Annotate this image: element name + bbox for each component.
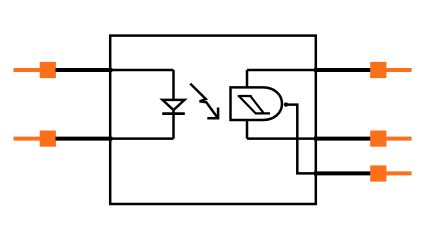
pin 1 (anode) lead	[14, 68, 42, 72]
pin 5 (GND) terminal	[370, 131, 386, 147]
wire gate output	[287, 105, 316, 174]
wire VCC rail top	[247, 69, 316, 72]
gate U1A body	[231, 87, 283, 120]
pin 5 (GND) wire	[314, 137, 371, 141]
pin 4 (VO output) lead	[386, 171, 412, 175]
wire cathode from LED	[110, 137, 173, 140]
pin 2 (cathode) terminal	[40, 131, 56, 147]
pin 4 (VO output) wire	[314, 171, 371, 175]
LED D1 cathode bar	[162, 112, 185, 115]
package outline U1	[110, 36, 316, 204]
pin 5 (GND) lead	[386, 137, 412, 141]
schmitt trigger hysteresis symbol	[238, 96, 270, 113]
wire LED vertical	[172, 70, 175, 139]
wire gate left rail	[246, 70, 249, 139]
wire anode to LED	[110, 69, 173, 72]
pin 2 (cathode) wire	[56, 137, 113, 141]
pin 1 (anode) terminal	[40, 62, 56, 78]
output inversion dot	[284, 102, 288, 106]
pin 2 (cathode) lead	[14, 137, 42, 141]
pin 1 (anode) wire	[56, 68, 113, 72]
wire GND rail bottom	[247, 137, 316, 140]
light emission arrow	[190, 84, 217, 118]
pin 6 (VCC) wire	[314, 68, 371, 72]
pin 6 (VCC) terminal	[370, 62, 386, 78]
pin 4 (VO output) terminal	[370, 165, 386, 181]
pin 6 (VCC) lead	[386, 68, 412, 72]
LED D1 triangle	[163, 100, 185, 110]
light arrow head	[207, 108, 218, 119]
